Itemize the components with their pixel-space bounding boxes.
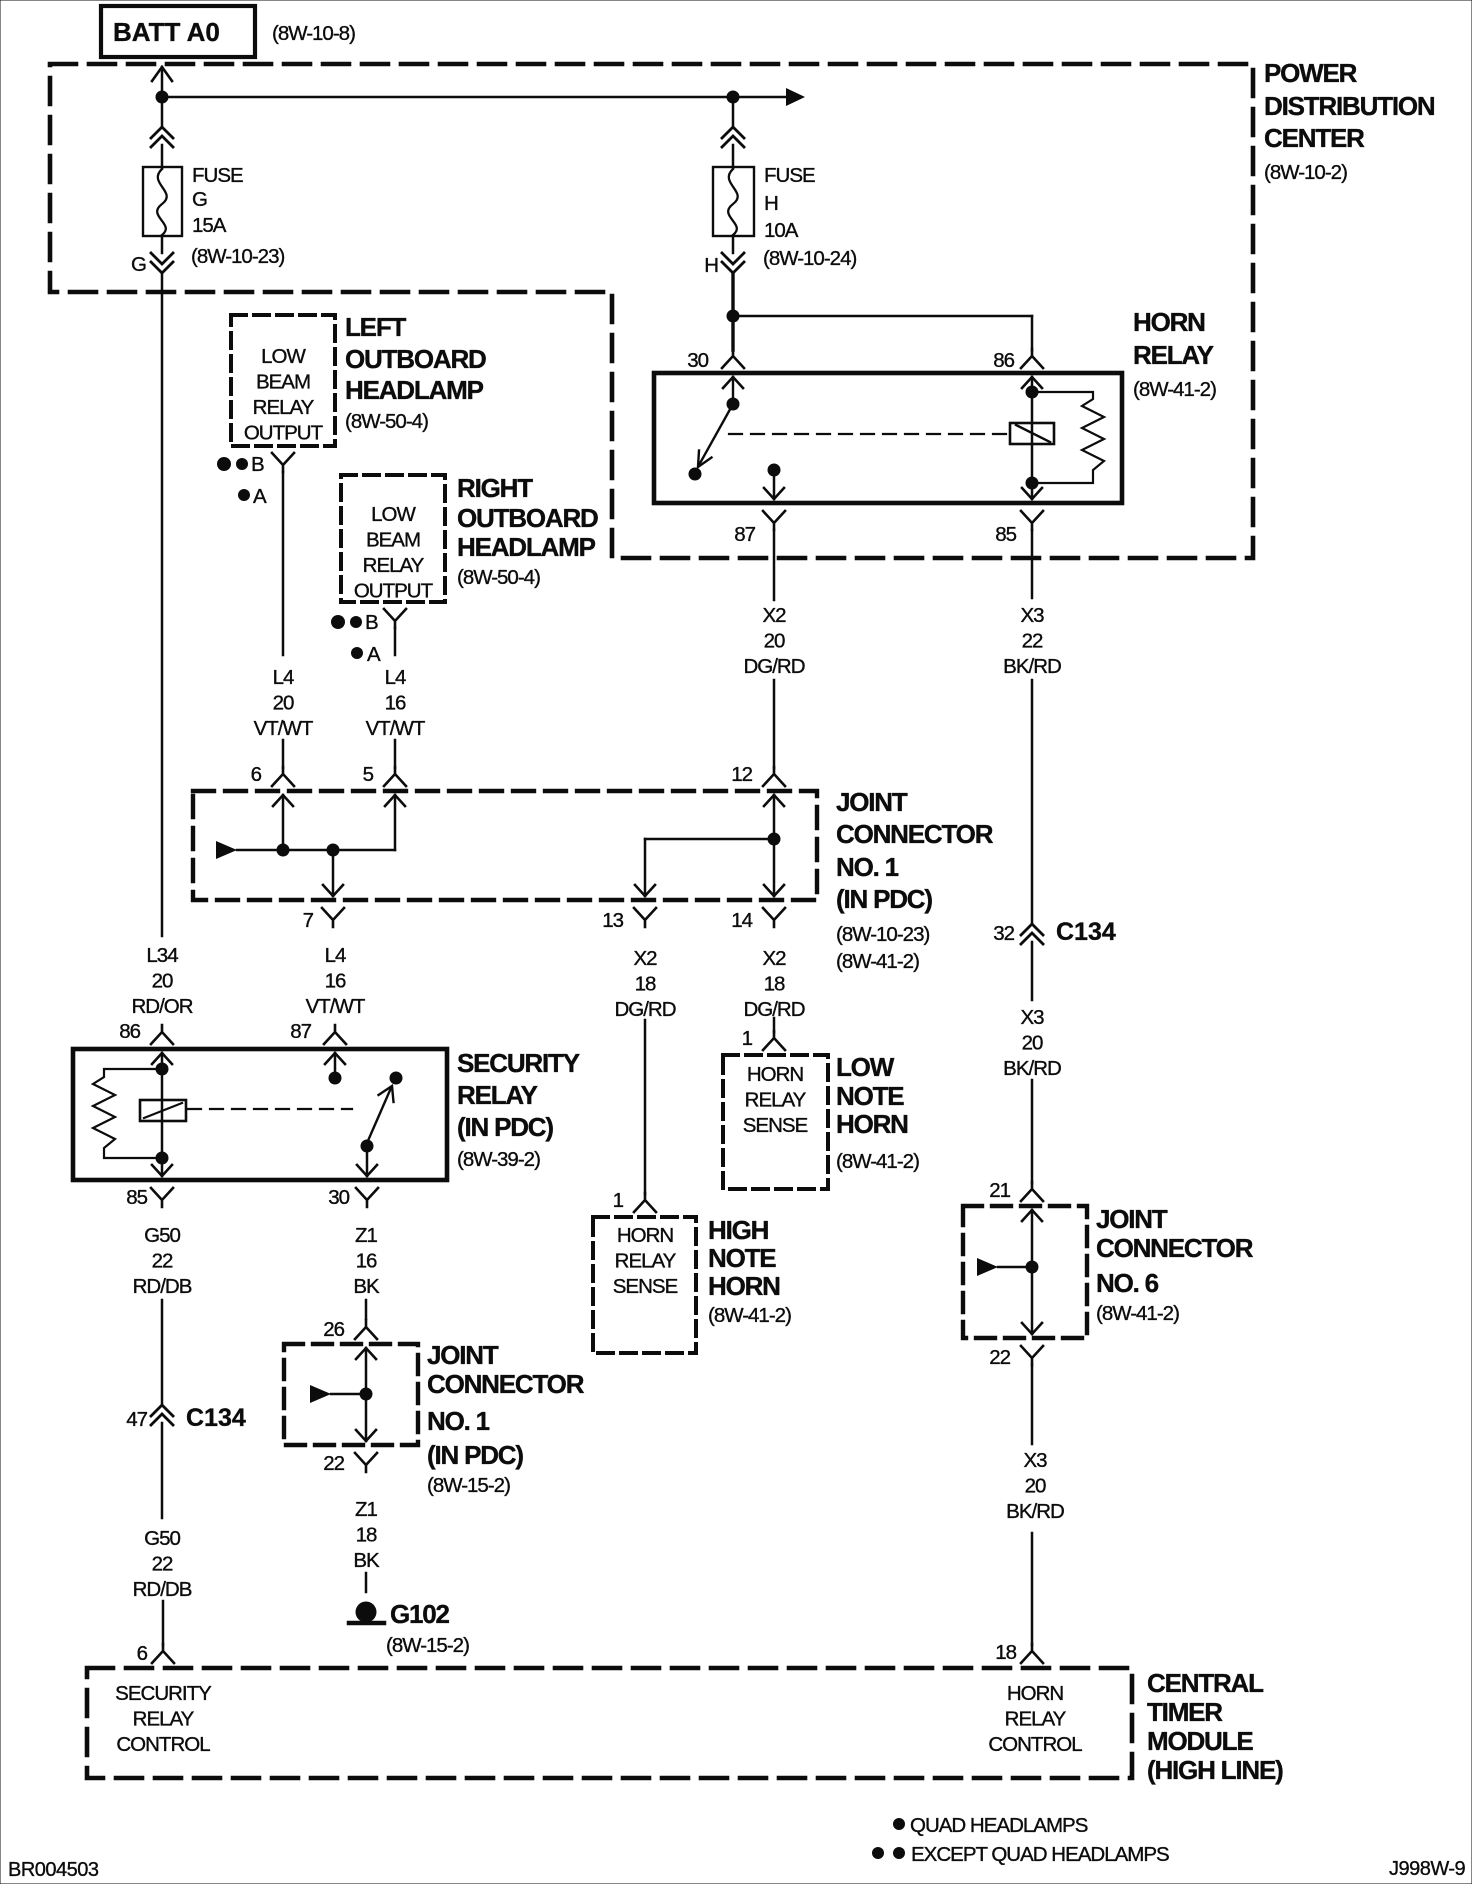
- svg-text:(IN PDC): (IN PDC): [457, 1112, 553, 1142]
- svg-text:POWER: POWER: [1264, 58, 1358, 88]
- svg-text:30: 30: [328, 1186, 349, 1209]
- svg-text:BEAM: BEAM: [366, 529, 420, 552]
- svg-text:RIGHT: RIGHT: [457, 473, 533, 503]
- svg-text:12: 12: [731, 763, 752, 786]
- svg-text:(IN PDC): (IN PDC): [427, 1440, 523, 1470]
- svg-text:18: 18: [356, 1524, 377, 1547]
- svg-text:18: 18: [995, 1641, 1016, 1664]
- svg-text:SENSE: SENSE: [613, 1275, 678, 1298]
- svg-text:RELAY: RELAY: [457, 1080, 538, 1110]
- svg-text:(HIGH LINE): (HIGH LINE): [1147, 1755, 1283, 1785]
- svg-text:JOINT: JOINT: [1096, 1204, 1168, 1234]
- svg-text:(8W-15-2): (8W-15-2): [427, 1474, 510, 1497]
- svg-text:RELAY: RELAY: [745, 1089, 807, 1112]
- svg-text:10A: 10A: [764, 219, 799, 242]
- svg-text:G: G: [192, 188, 207, 211]
- svg-text:NOTE: NOTE: [836, 1081, 904, 1111]
- svg-text:RELAY: RELAY: [615, 1250, 677, 1273]
- svg-text:RELAY: RELAY: [1005, 1708, 1067, 1731]
- svg-text:1: 1: [613, 1189, 624, 1212]
- svg-text:22: 22: [152, 1553, 173, 1576]
- svg-text:RD/DB: RD/DB: [133, 1578, 192, 1601]
- svg-text:CENTRAL: CENTRAL: [1147, 1668, 1264, 1698]
- svg-text:NO. 1: NO. 1: [836, 852, 899, 882]
- svg-text:G102: G102: [390, 1599, 450, 1629]
- svg-text:CENTER: CENTER: [1264, 123, 1365, 153]
- svg-text:22: 22: [1022, 630, 1043, 653]
- svg-text:HORN: HORN: [747, 1063, 804, 1086]
- svg-text:C134: C134: [186, 1404, 246, 1432]
- svg-text:(8W-10-23): (8W-10-23): [191, 245, 284, 268]
- svg-text:Z1: Z1: [355, 1498, 378, 1521]
- svg-text:LOW: LOW: [836, 1052, 895, 1082]
- svg-text:G50: G50: [144, 1527, 180, 1550]
- svg-text:20: 20: [1022, 1032, 1043, 1055]
- svg-text:14: 14: [731, 909, 752, 932]
- svg-text:BK: BK: [353, 1275, 380, 1298]
- svg-text:22: 22: [323, 1452, 344, 1475]
- svg-text:47: 47: [126, 1408, 147, 1431]
- svg-text:X3: X3: [1023, 1449, 1047, 1472]
- svg-text:(8W-39-2): (8W-39-2): [457, 1148, 540, 1171]
- svg-text:X2: X2: [762, 947, 786, 970]
- svg-text:(8W-41-2): (8W-41-2): [836, 950, 919, 973]
- svg-text:20: 20: [273, 692, 294, 715]
- svg-text:QUAD HEADLAMPS: QUAD HEADLAMPS: [910, 1814, 1088, 1837]
- svg-text:(8W-15-2): (8W-15-2): [386, 1634, 469, 1657]
- svg-text:(8W-50-4): (8W-50-4): [457, 566, 540, 589]
- svg-text:NOTE: NOTE: [708, 1243, 776, 1273]
- svg-text:(8W-10-2): (8W-10-2): [1264, 161, 1347, 184]
- svg-text:BK/RD: BK/RD: [1006, 1500, 1064, 1523]
- svg-text:L34: L34: [146, 944, 178, 967]
- svg-text:G: G: [131, 253, 146, 276]
- svg-text:Z1: Z1: [355, 1224, 378, 1247]
- svg-text:HEADLAMP: HEADLAMP: [457, 532, 596, 562]
- svg-text:21: 21: [989, 1179, 1010, 1202]
- svg-text:DG/RD: DG/RD: [614, 998, 675, 1021]
- svg-text:(8W-10-8): (8W-10-8): [272, 22, 355, 45]
- svg-text:LEFT: LEFT: [345, 312, 407, 342]
- svg-text:RELAY: RELAY: [253, 396, 315, 419]
- svg-text:16: 16: [385, 692, 406, 715]
- svg-text:15A: 15A: [192, 214, 227, 237]
- svg-text:NO. 6: NO. 6: [1096, 1268, 1159, 1298]
- svg-text:RELAY: RELAY: [363, 554, 425, 577]
- svg-text:HORN: HORN: [617, 1224, 674, 1247]
- svg-text:(8W-50-4): (8W-50-4): [345, 410, 428, 433]
- svg-text:CONNECTOR: CONNECTOR: [427, 1369, 585, 1399]
- svg-text:16: 16: [325, 970, 346, 993]
- svg-text:B: B: [251, 453, 264, 476]
- svg-text:16: 16: [356, 1250, 377, 1273]
- svg-text:(8W-41-2): (8W-41-2): [1096, 1302, 1179, 1325]
- svg-text:(8W-10-24): (8W-10-24): [763, 247, 856, 270]
- svg-text:1: 1: [742, 1027, 753, 1050]
- svg-text:87: 87: [734, 523, 755, 546]
- svg-text:LOW: LOW: [261, 345, 306, 368]
- svg-text:RD/DB: RD/DB: [133, 1275, 192, 1298]
- svg-text:7: 7: [303, 909, 314, 932]
- svg-text:HEADLAMP: HEADLAMP: [345, 375, 484, 405]
- svg-text:CONNECTOR: CONNECTOR: [1096, 1233, 1254, 1263]
- svg-text:85: 85: [126, 1186, 147, 1209]
- svg-text:FUSE: FUSE: [764, 164, 815, 187]
- svg-text:13: 13: [602, 909, 623, 932]
- svg-text:RELAY: RELAY: [133, 1708, 195, 1731]
- svg-text:HORN: HORN: [836, 1109, 908, 1139]
- svg-text:CONTROL: CONTROL: [988, 1733, 1082, 1756]
- svg-text:6: 6: [137, 1642, 148, 1665]
- svg-text:86: 86: [993, 349, 1014, 372]
- svg-text:HORN: HORN: [1133, 307, 1205, 337]
- svg-text:(8W-41-2): (8W-41-2): [1133, 378, 1216, 401]
- svg-text:L4: L4: [325, 944, 346, 967]
- svg-text:OUTBOARD: OUTBOARD: [345, 344, 486, 374]
- svg-text:HORN: HORN: [1007, 1682, 1064, 1705]
- svg-text:A: A: [367, 643, 381, 666]
- svg-text:B: B: [365, 611, 378, 634]
- svg-text:CONNECTOR: CONNECTOR: [836, 819, 994, 849]
- svg-text:A: A: [253, 485, 267, 508]
- svg-text:(8W-10-23): (8W-10-23): [836, 923, 929, 946]
- svg-text:BK: BK: [353, 1549, 380, 1572]
- svg-text:LOW: LOW: [371, 503, 416, 526]
- svg-text:DISTRIBUTION: DISTRIBUTION: [1264, 91, 1435, 121]
- svg-text:86: 86: [119, 1020, 140, 1043]
- svg-text:RD/OR: RD/OR: [131, 995, 192, 1018]
- svg-text:BK/RD: BK/RD: [1003, 655, 1061, 678]
- svg-text:BATT A0: BATT A0: [113, 17, 220, 47]
- svg-text:TIMER: TIMER: [1147, 1697, 1223, 1727]
- svg-text:FUSE: FUSE: [192, 164, 243, 187]
- svg-text:SECURITY: SECURITY: [457, 1048, 580, 1078]
- svg-text:18: 18: [764, 973, 785, 996]
- svg-text:MODULE: MODULE: [1147, 1726, 1253, 1756]
- svg-text:OUTPUT: OUTPUT: [244, 422, 324, 445]
- svg-text:BR004503: BR004503: [8, 1859, 99, 1881]
- svg-text:20: 20: [764, 630, 785, 653]
- svg-text:RELAY: RELAY: [1133, 340, 1214, 370]
- svg-text:L4: L4: [273, 666, 294, 689]
- svg-text:22: 22: [989, 1346, 1010, 1369]
- svg-text:HORN: HORN: [708, 1271, 780, 1301]
- svg-text:(8W-41-2): (8W-41-2): [836, 1150, 919, 1173]
- svg-text:(IN PDC): (IN PDC): [836, 884, 932, 914]
- svg-text:X3: X3: [1020, 604, 1044, 627]
- svg-text:SECURITY: SECURITY: [115, 1682, 212, 1705]
- svg-text:22: 22: [152, 1250, 173, 1273]
- svg-text:JOINT: JOINT: [836, 787, 908, 817]
- svg-text:30: 30: [687, 349, 708, 372]
- svg-text:SENSE: SENSE: [743, 1114, 808, 1137]
- svg-text:CONTROL: CONTROL: [116, 1733, 210, 1756]
- svg-text:VT/WT: VT/WT: [366, 717, 426, 740]
- svg-text:(8W-41-2): (8W-41-2): [708, 1304, 791, 1327]
- svg-text:H: H: [704, 254, 718, 277]
- svg-text:DG/RD: DG/RD: [743, 655, 804, 678]
- svg-text:J998W-9: J998W-9: [1389, 1858, 1466, 1880]
- svg-text:VT/WT: VT/WT: [306, 995, 366, 1018]
- svg-text:EXCEPT QUAD HEADLAMPS: EXCEPT QUAD HEADLAMPS: [911, 1843, 1169, 1866]
- svg-text:85: 85: [995, 523, 1016, 546]
- svg-text:OUTBOARD: OUTBOARD: [457, 503, 598, 533]
- svg-text:87: 87: [290, 1020, 311, 1043]
- svg-text:BEAM: BEAM: [256, 371, 310, 394]
- svg-text:18: 18: [635, 973, 656, 996]
- svg-text:6: 6: [251, 763, 262, 786]
- svg-text:BK/RD: BK/RD: [1003, 1057, 1061, 1080]
- svg-text:HIGH: HIGH: [708, 1215, 769, 1245]
- svg-text:X2: X2: [633, 947, 657, 970]
- svg-text:L4: L4: [385, 666, 406, 689]
- svg-text:OUTPUT: OUTPUT: [354, 580, 434, 603]
- svg-text:C134: C134: [1056, 918, 1116, 946]
- svg-text:20: 20: [152, 970, 173, 993]
- svg-text:X2: X2: [762, 604, 786, 627]
- svg-text:26: 26: [323, 1318, 344, 1341]
- svg-text:JOINT: JOINT: [427, 1340, 499, 1370]
- svg-text:G50: G50: [144, 1224, 180, 1247]
- svg-text:X3: X3: [1020, 1006, 1044, 1029]
- svg-text:32: 32: [993, 922, 1014, 945]
- svg-text:H: H: [764, 192, 778, 215]
- svg-text:20: 20: [1025, 1475, 1046, 1498]
- svg-text:VT/WT: VT/WT: [254, 717, 314, 740]
- svg-text:NO. 1: NO. 1: [427, 1406, 490, 1436]
- svg-text:5: 5: [363, 763, 374, 786]
